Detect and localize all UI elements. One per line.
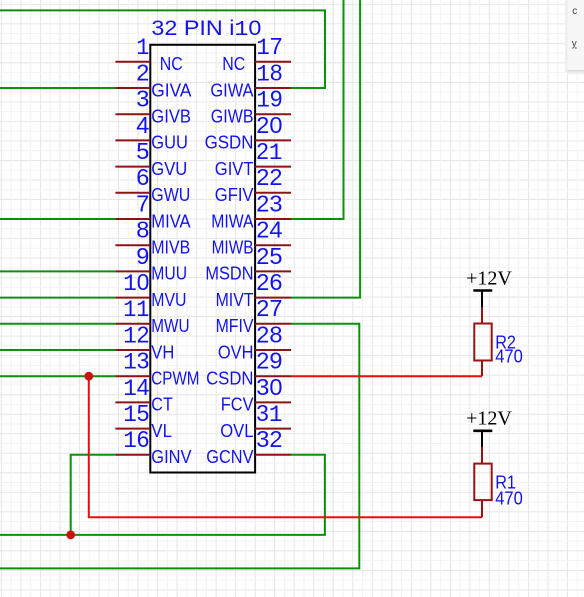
pin 19 GIWB xyxy=(211,86,291,127)
svg-text:MIVA: MIVA xyxy=(151,211,190,231)
pin 4 GUU xyxy=(115,112,187,153)
pin 13 CPWM xyxy=(115,348,199,389)
svg-text:MUU: MUU xyxy=(151,264,187,284)
svg-text:GFIV: GFIV xyxy=(215,185,254,205)
wire to pin 13 CPWM xyxy=(0,375,115,377)
wire to pin 7 MIVA xyxy=(0,218,115,220)
svg-text:7: 7 xyxy=(136,190,149,216)
svg-text:5: 5 xyxy=(136,138,149,164)
svg-text:18: 18 xyxy=(256,59,282,88)
svg-text:NC: NC xyxy=(160,54,183,74)
svg-text:30: 30 xyxy=(256,374,282,400)
resistor R2 470 xyxy=(474,307,523,376)
svg-text:CSDN: CSDN xyxy=(206,369,253,389)
wire to pin 12 VH xyxy=(0,349,115,351)
svg-text:470: 470 xyxy=(495,346,523,366)
pin 30 FCV xyxy=(221,374,291,415)
svg-text:NC: NC xyxy=(222,54,245,74)
svg-text:MIVT: MIVT xyxy=(216,290,254,310)
junction dot GINV bottom net xyxy=(66,531,75,540)
pin 9 MUU xyxy=(115,243,187,284)
svg-text:470: 470 xyxy=(495,488,523,508)
power symbol +12V (upper, feeds R2) xyxy=(466,268,512,308)
pin 16 GINV xyxy=(115,426,191,467)
svg-text:y: y xyxy=(572,39,577,50)
svg-text:4: 4 xyxy=(136,112,149,138)
pin 11 MWU xyxy=(115,297,189,336)
pin 12 VH xyxy=(115,321,174,362)
svg-text:GSDN: GSDN xyxy=(205,133,254,153)
svg-text:13: 13 xyxy=(123,348,149,377)
wire pin 32 GCNV down-left bottom net xyxy=(0,455,325,535)
wire pin 27 MFIV down-left xyxy=(0,324,359,569)
svg-text:16: 16 xyxy=(123,426,149,455)
svg-text:OVH: OVH xyxy=(218,342,254,362)
svg-text:GVU: GVU xyxy=(151,159,187,179)
svg-text:VH: VH xyxy=(151,342,174,362)
svg-text:GWU: GWU xyxy=(151,185,190,205)
pin 27 MFIV xyxy=(216,295,291,336)
svg-text:GIWA: GIWA xyxy=(210,80,253,100)
pin 22 GFIV xyxy=(215,164,291,205)
pin 8 MIVB xyxy=(115,217,190,258)
pin 15 VL xyxy=(115,400,172,441)
pin 1 NC xyxy=(115,35,182,74)
pin 23 MIWA xyxy=(211,190,291,231)
pin 2 GIVA xyxy=(115,59,191,100)
svg-text:1: 1 xyxy=(136,35,149,62)
svg-text:GCNV: GCNV xyxy=(206,447,253,467)
svg-text:MWU: MWU xyxy=(151,316,189,336)
wire to pin 11 MWU xyxy=(0,323,115,325)
svg-text:12: 12 xyxy=(123,321,149,350)
svg-text:GIWB: GIWB xyxy=(211,107,254,127)
svg-text:14: 14 xyxy=(123,374,149,403)
svg-text:8: 8 xyxy=(136,217,149,243)
svg-text:27: 27 xyxy=(256,295,282,321)
svg-text:+12V: +12V xyxy=(466,408,512,430)
IC U1 body "32 PIN i10" xyxy=(150,16,261,473)
svg-text:VL: VL xyxy=(151,421,172,441)
svg-text:GIVB: GIVB xyxy=(151,107,191,127)
power symbol +12V (lower, feeds R1) xyxy=(466,408,512,447)
pin 31 OVL xyxy=(220,400,291,441)
svg-text:23: 23 xyxy=(256,190,282,216)
svg-text:c: c xyxy=(572,6,577,17)
pin 18 GIWA xyxy=(210,59,291,100)
svg-text:FCV: FCV xyxy=(221,395,254,415)
svg-text:21: 21 xyxy=(256,138,282,167)
svg-text:11: 11 xyxy=(123,297,149,324)
svg-text:20: 20 xyxy=(256,112,282,138)
wire to pin 9 MUU xyxy=(0,270,115,272)
svg-text:24: 24 xyxy=(256,217,282,243)
svg-text:25: 25 xyxy=(256,243,282,269)
pin 32 GCNV xyxy=(206,426,291,467)
wire pin 26 MIVT up xyxy=(291,0,360,298)
pin 25 MSDN xyxy=(205,243,291,284)
svg-text:32 PIN i10: 32 PIN i10 xyxy=(151,16,261,42)
pin 6 GWU xyxy=(115,164,190,205)
wire pin 23 MIWA up xyxy=(291,0,344,219)
svg-text:10: 10 xyxy=(123,269,149,298)
svg-text:CT: CT xyxy=(151,395,173,415)
pin 10 MVU xyxy=(115,269,186,310)
pin 7 MIVA xyxy=(115,190,190,231)
svg-text:19: 19 xyxy=(256,86,282,115)
svg-text:3: 3 xyxy=(136,86,149,112)
svg-text:MSDN: MSDN xyxy=(205,264,253,284)
svg-text:22: 22 xyxy=(256,164,282,190)
svg-text:9: 9 xyxy=(136,243,149,269)
svg-text:+12V: +12V xyxy=(466,268,512,290)
pin 24 MIWB xyxy=(212,217,291,258)
UI panel fragment (top-right, cut off) xyxy=(565,0,584,75)
wire to pin 2 GIVA xyxy=(0,87,115,89)
svg-text:MVU: MVU xyxy=(151,290,186,310)
pin 14 CT xyxy=(115,374,172,415)
svg-text:6: 6 xyxy=(136,164,149,190)
wire to pin 10 MVU xyxy=(0,297,115,299)
svg-text:OVL: OVL xyxy=(220,421,253,441)
junction dot CPWM node xyxy=(84,372,93,381)
svg-text:29: 29 xyxy=(256,348,282,374)
svg-text:28: 28 xyxy=(256,321,282,347)
svg-text:17: 17 xyxy=(256,33,282,62)
pin 17 NC xyxy=(222,33,291,74)
svg-text:26: 26 xyxy=(256,269,282,295)
svg-text:GIVT: GIVT xyxy=(215,159,254,179)
wire CPWM node down to R1 bottom (red) xyxy=(89,376,482,517)
pin 3 GIVB xyxy=(115,86,191,127)
pin 28 OVH xyxy=(218,321,291,362)
svg-text:GINV: GINV xyxy=(151,447,191,467)
svg-text:GUU: GUU xyxy=(151,133,188,153)
svg-text:MIVB: MIVB xyxy=(151,238,190,258)
svg-text:2: 2 xyxy=(136,59,149,85)
svg-text:32: 32 xyxy=(256,426,282,452)
svg-text:15: 15 xyxy=(123,400,149,429)
pin 20 GSDN xyxy=(205,112,291,153)
resistor R1 470 xyxy=(474,447,523,517)
wire pin 29 CSDN to R2 bottom (red) xyxy=(291,375,482,377)
svg-text:31: 31 xyxy=(256,400,282,429)
svg-text:MIWB: MIWB xyxy=(212,238,254,258)
svg-text:CPWM: CPWM xyxy=(151,369,199,389)
wire pin 16 GINV down to bottom net xyxy=(71,455,116,535)
wire net to pin 18 GIWA (top) xyxy=(0,10,325,88)
pin 5 GVU xyxy=(115,138,187,179)
svg-text:MFIV: MFIV xyxy=(216,316,254,336)
pin 26 MIVT xyxy=(216,269,291,310)
pin 29 CSDN xyxy=(206,348,291,389)
pin 21 GIVT xyxy=(215,138,291,179)
svg-text:MIWA: MIWA xyxy=(211,211,253,231)
svg-text:GIVA: GIVA xyxy=(151,80,191,100)
